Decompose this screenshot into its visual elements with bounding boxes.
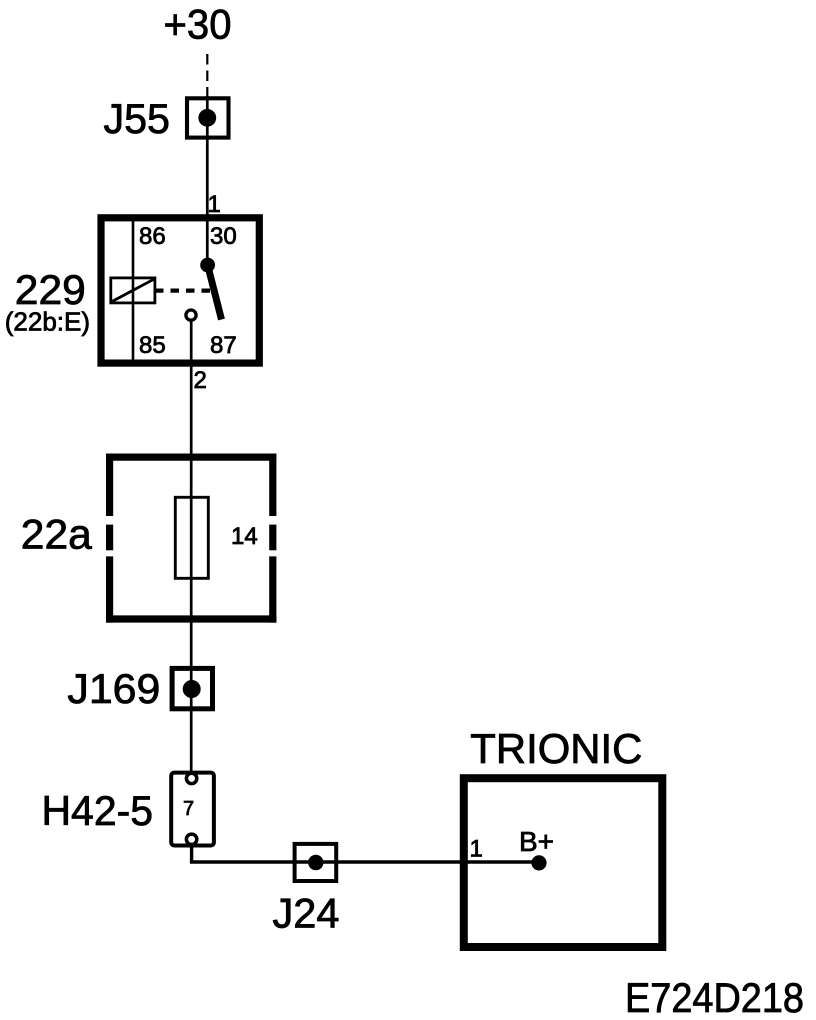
svg-text:2: 2 [194, 367, 207, 394]
svg-text:86: 86 [139, 223, 166, 250]
svg-text:J24: J24 [273, 889, 340, 936]
svg-text:85: 85 [139, 332, 166, 359]
svg-text:30: 30 [210, 223, 237, 250]
svg-text:J169: J169 [67, 665, 160, 712]
svg-text:+30: +30 [164, 1, 232, 48]
svg-text:H42-5: H42-5 [42, 787, 154, 834]
svg-text:B+: B+ [519, 826, 554, 857]
svg-text:(22b:E): (22b:E) [5, 307, 90, 337]
svg-text:7: 7 [183, 798, 194, 820]
svg-text:E724D218: E724D218 [625, 974, 804, 1020]
svg-text:J55: J55 [104, 95, 171, 142]
svg-text:1: 1 [470, 836, 483, 863]
svg-text:TRIONIC: TRIONIC [470, 725, 642, 772]
svg-text:22a: 22a [21, 510, 93, 557]
svg-text:14: 14 [231, 523, 258, 550]
svg-text:1: 1 [208, 191, 221, 218]
svg-text:87: 87 [210, 332, 237, 359]
